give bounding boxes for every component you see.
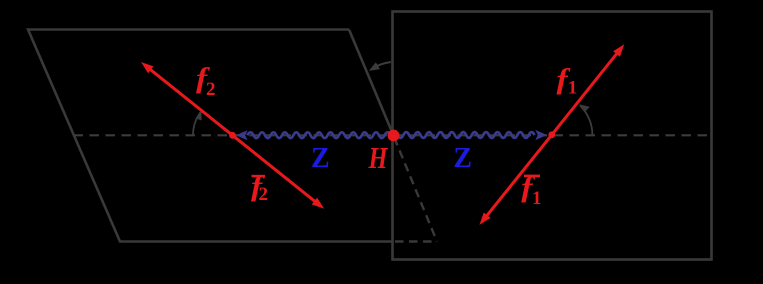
label f1	[557, 63, 578, 98]
svg-text:1: 1	[568, 78, 578, 99]
antifermion f2bar arrow (down-right)	[233, 135, 316, 202]
label f2bar	[251, 170, 268, 205]
svg-text:2: 2	[206, 79, 216, 100]
antifermion f1bar arrow (down-left)	[486, 135, 552, 217]
Z boson 1 wavy line (right, blue)	[392, 132, 535, 138]
Z1 arrowhead (pointing right)	[535, 130, 547, 140]
svg-text:1: 1	[532, 188, 542, 209]
decay plane 2 (left parallelogram, solid edges)	[28, 30, 394, 242]
label f1bar	[521, 171, 541, 209]
svg-text:2: 2	[259, 184, 269, 205]
Z-Z axis (dashed horizontal line)	[74, 134, 711, 136]
svg-text:H: H	[368, 140, 388, 175]
decay plane 2 hidden edges (dashed)	[394, 138, 437, 242]
Higgs vertex dot H	[388, 130, 400, 142]
label f2	[196, 62, 216, 100]
fermion f1 arrow (up-right)	[552, 53, 618, 135]
Z2 decay vertex dot	[229, 132, 236, 139]
angle theta1 arc (right)	[580, 106, 592, 135]
Z1 decay vertex dot	[548, 131, 555, 138]
svg-text:Z: Z	[453, 143, 472, 174]
fermion f2 arrow (up-left)	[150, 69, 233, 135]
decay plane 1 (right rectangle)	[393, 12, 712, 260]
angle theta2 arc (left)	[193, 112, 201, 135]
angle Phi arrow (between planes, top centre)	[378, 62, 391, 66]
Z boson 2 wavy line (left, blue)	[247, 132, 392, 138]
Z2 arrowhead (pointing left)	[236, 130, 248, 140]
svg-text:Z: Z	[311, 143, 330, 174]
